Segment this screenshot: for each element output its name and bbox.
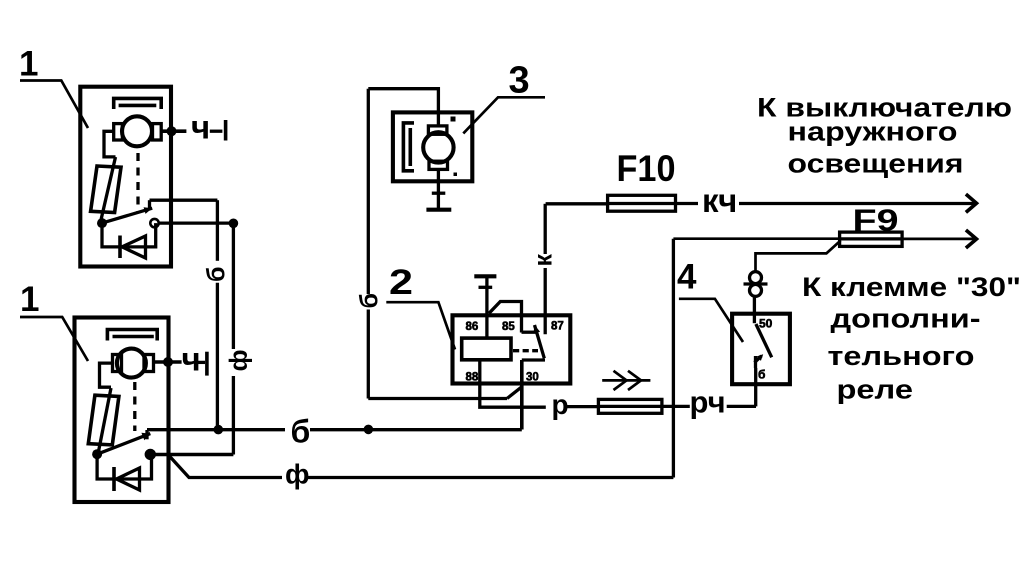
resistor slanted body (top unit) xyxy=(91,166,121,213)
lamp right terminal rect (bottom unit) xyxy=(144,355,154,372)
lamp reflector bracket (bottom unit) xyxy=(107,330,157,341)
diode (bottom unit) wiring xyxy=(97,454,151,479)
svg-text:4: 4 xyxy=(677,258,697,297)
fuse in рч line body xyxy=(598,399,662,413)
wire lower contact of bottom unit to ф drop xyxy=(155,453,234,457)
svg-text:наружного: наружного xyxy=(788,117,958,147)
switch 4 lower contact arrow xyxy=(754,356,757,368)
б bus wire from bottom unit to relay 2 xyxy=(147,428,285,431)
diode triangle (bottom unit) xyxy=(117,468,140,490)
node: switch pivot dot (bottom unit) xyxy=(92,449,102,459)
relay coil (unit 2) xyxy=(462,338,511,360)
internal link from coil-top node to fixed contact (unit 2) xyxy=(489,302,522,333)
svg-text:F10: F10 xyxy=(617,148,676,189)
node: junction dot б bus / top unit drop xyxy=(214,425,224,435)
svg-text:F9: F9 xyxy=(853,203,899,238)
switch contact circle (bottom unit) xyxy=(146,450,155,459)
wire from top unit upper contact right xyxy=(150,199,218,202)
inverted ground bar above relay 2 xyxy=(474,274,496,278)
diagonal joining б branch to relay feed xyxy=(507,387,522,399)
svg-text:85: 85 xyxy=(502,321,515,333)
leader line for label 1 (bottom) xyxy=(20,317,88,361)
diode cathode bar (top unit) xyxy=(118,236,122,259)
dashed mechanical link lamp-switch (bottom unit) xyxy=(133,382,136,431)
fuse F10 body xyxy=(608,195,676,211)
resistor slanted body (bottom unit) xyxy=(88,395,119,445)
svg-text:2: 2 xyxy=(389,263,413,302)
svg-text:рч: рч xyxy=(690,385,726,420)
wire ф riser to F9 xyxy=(673,237,839,240)
wire lamp right to ч terminal (top unit) xyxy=(161,129,186,133)
connector pair symbol above switch 4 xyxy=(750,272,762,284)
resistor through-wire (bottom unit) xyxy=(99,388,112,452)
wire lamp left terminal to resistor (top unit) xyxy=(104,131,116,157)
wire F9 to arrow xyxy=(902,238,974,241)
wire connector up and right to F9 xyxy=(756,241,841,272)
wire from top unit lower contact right xyxy=(159,221,234,224)
svg-text:К клемме "30": К клемме "30" xyxy=(802,272,1021,302)
diode triangle (top unit) xyxy=(122,236,146,258)
inverted ground tick above relay 2 xyxy=(479,286,493,289)
arrowhead to клемма 30 xyxy=(966,230,977,248)
svg-text:тельного: тельного xyxy=(828,341,975,371)
lamp left terminal rect (top unit) xyxy=(114,124,123,140)
resistor through-wire (top unit) xyxy=(101,157,116,222)
node: ч terminal dot on box edge (top unit) xyxy=(167,126,177,136)
wire coil top to ground (unit 2) xyxy=(485,276,488,338)
lamp bottom terminal rect (unit 3) xyxy=(429,161,448,169)
wire кч to arrow xyxy=(739,202,974,205)
switch arm (top unit) xyxy=(102,208,152,223)
dashed mechanical link coil-armature (unit 2) xyxy=(513,349,538,352)
svg-text:б: б xyxy=(203,267,231,282)
svg-text:б: б xyxy=(356,293,384,308)
arrowhead to наружное освещение xyxy=(966,194,977,212)
lamp right terminal rect (top unit) xyxy=(153,124,162,140)
lamp 3 pin mark bottom xyxy=(454,173,458,177)
switch arm (bottom unit) xyxy=(97,434,150,455)
svg-text:87: 87 xyxy=(551,321,564,333)
svg-text:30: 30 xyxy=(526,372,539,384)
lamp bulb circle (unit 3) xyxy=(423,132,453,162)
svg-text:3: 3 xyxy=(509,60,530,102)
svg-text:дополни-: дополни- xyxy=(831,304,981,334)
svg-text:ч: ч xyxy=(182,340,201,377)
svg-text:б: б xyxy=(291,414,311,450)
lamp bulb circle (bottom unit) xyxy=(117,349,146,378)
svg-text:86: 86 xyxy=(466,321,479,333)
б branch turn to relay 2 xyxy=(368,397,507,400)
б drop wire from top unit xyxy=(216,200,219,261)
ground tick (unit 3) xyxy=(432,192,446,195)
switch 4 arm xyxy=(756,324,772,357)
armature base wire (unit 2) xyxy=(522,358,545,361)
wire к corner to F10 xyxy=(546,202,608,205)
lamp reflector bracket (top unit) xyxy=(114,98,162,109)
relay armature arm (unit 2) xyxy=(535,325,545,358)
wire from lamp 3 top terminal up and left xyxy=(368,89,438,126)
рч wire from fuse to switch 4 xyxy=(662,405,690,408)
svg-text:50: 50 xyxy=(759,317,773,331)
fixed contact tick on б wire (bottom unit) xyxy=(145,430,148,439)
terminal pin symbol after ч (top unit) xyxy=(210,130,223,133)
svg-text:освещения: освещения xyxy=(788,149,964,179)
node: corner dot xyxy=(229,219,239,229)
fuse F9 body xyxy=(840,232,903,246)
lamp left terminal rect (bottom unit) xyxy=(113,355,122,372)
lamp 3 pin mark top xyxy=(451,117,456,122)
switch contact circle (top unit) xyxy=(150,219,158,227)
б branch from lamp 3 down xyxy=(367,89,370,294)
lamp unit 3 box xyxy=(393,112,472,181)
relay 2 box xyxy=(453,315,571,383)
ф bus wire from bottom unit to right riser xyxy=(169,456,282,478)
svg-text:кч: кч xyxy=(702,182,737,219)
leader line for label 1 (top) xyxy=(20,81,88,129)
lamp reflector bracket (unit 3) xyxy=(403,123,414,171)
fixed contact tick (top unit) xyxy=(148,200,151,209)
к wire from F10 corner down to relay 2 xyxy=(544,204,547,254)
switch 4 top terminal wire xyxy=(753,297,756,324)
terminal pin symbol after ч (bottom unit) xyxy=(197,361,205,364)
connector arrow symbol above рч fuse xyxy=(602,379,650,382)
svg-text:1: 1 xyxy=(20,280,39,319)
fixed contact tick (unit 2) xyxy=(522,331,536,334)
б feed up into relay 2 xyxy=(520,360,524,430)
svg-text:реле: реле xyxy=(837,375,914,405)
headlamp unit 1 (bottom) box xyxy=(75,318,169,503)
svg-text:ф: ф xyxy=(285,459,310,490)
node: ч terminal dot on box edge (bottom unit) xyxy=(163,357,173,367)
ground bar (unit 3) xyxy=(426,208,451,212)
svg-text:ч: ч xyxy=(191,108,210,145)
wire lamp left terminal to resistor (bottom unit) xyxy=(100,363,113,387)
wire coil bottom down and right to р (unit 2) xyxy=(480,360,546,407)
leader line for label 3 xyxy=(463,97,545,133)
svg-text:ф: ф xyxy=(225,350,253,372)
diode cathode bar (bottom unit) xyxy=(112,467,116,491)
ф riser up to F9 line xyxy=(672,239,675,478)
svg-text:к: к xyxy=(530,254,558,267)
wire from lamp 3 bottom terminal to ground xyxy=(437,169,440,209)
к contact wire inside relay 2 xyxy=(544,268,547,334)
ф drop wire from top unit xyxy=(232,223,235,349)
leader line for label 2 xyxy=(386,302,455,349)
svg-text:1: 1 xyxy=(19,45,38,84)
node: switch pivot dot (top unit) xyxy=(97,218,107,228)
svg-text:88: 88 xyxy=(466,372,479,384)
node: junction dot б bus / lamp 3 branch xyxy=(364,425,374,435)
wire F10 to кч label xyxy=(676,202,699,205)
diode (top unit) wiring xyxy=(102,223,156,247)
switch 4 bottom terminal wire xyxy=(754,368,757,406)
lamp top terminal rect (unit 3) xyxy=(428,126,447,134)
lamp bulb circle (top unit) xyxy=(122,116,152,146)
dashed mechanical link lamp-switch (top unit) xyxy=(136,153,139,212)
switch unit 4 box xyxy=(732,314,790,385)
svg-text:р: р xyxy=(552,389,569,420)
headlamp unit 1 (top) box xyxy=(80,87,171,267)
leader line for label 4 xyxy=(679,299,743,342)
wire lamp right to ч terminal (bottom unit) xyxy=(154,360,182,364)
svg-text:б: б xyxy=(758,368,765,382)
